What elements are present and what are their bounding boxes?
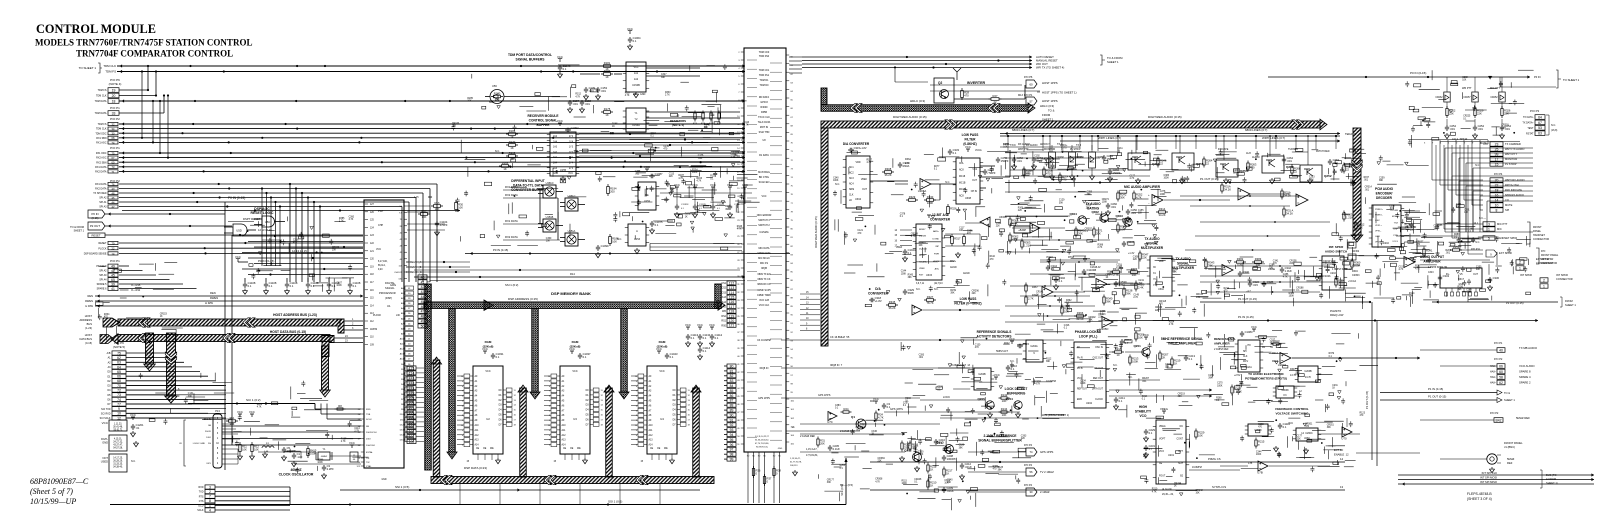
dense circuitry texture [1005,148,1364,193]
wire [945,233,980,235]
svg-text:INT SPI MISO: INT SPI MISO [1480,480,1497,484]
svg-text:R366: R366 [1077,311,1084,315]
wire ram addr stubs [457,375,464,377]
svg-text:BUFFER: BUFFER [537,123,551,127]
svg-text:L7B: L7B [1248,462,1253,465]
svg-text:CE: CE [476,448,480,450]
capacitor C1108 [328,278,330,282]
svg-text:HOST: HOST [85,333,93,337]
svg-text:39K: 39K [188,396,193,398]
svg-text:3: 3 [1488,222,1490,226]
svg-text:34.2K: 34.2K [1224,187,1231,191]
svg-text:TDM FS: TDM FS [98,123,107,126]
svg-text:22K: 22K [1086,207,1091,209]
svg-text:M13: M13 [1018,94,1023,97]
svg-text:DCLKR: DCLKR [1391,210,1399,212]
svg-text:33: 33 [112,111,116,115]
svg-text:0.1: 0.1 [311,284,315,288]
svg-text:A/B: A/B [107,352,111,355]
svg-text:R170: R170 [494,91,501,95]
svg-text:VCC: VCC [1288,422,1293,425]
svg-text:0.1: 0.1 [939,441,943,445]
capacitor C255 [996,157,1000,163]
svg-text:1A2: 1A2 [553,151,558,154]
svg-text:DQ/CLK: DQ/CLK [919,249,928,251]
svg-text:22K: 22K [1138,212,1143,214]
svg-text:NC8: NC8 [959,170,964,172]
capacitor C1049 [558,59,562,62]
svg-text:INDCATE: INDCATE [1218,148,1229,151]
svg-text:39K: 39K [1458,289,1463,291]
resistor R31 [817,439,819,445]
svg-text:RX2 SBN: RX2 SBN [96,161,107,164]
svg-text:108,113: 108,113 [790,465,798,467]
connector column right of memory bank lower [727,364,736,368]
svg-text:R132: R132 [1001,393,1008,397]
svg-text:VREF: VREF [919,268,925,270]
svg-text:10K: 10K [242,447,247,451]
transistor Q304 [1078,216,1086,224]
wire stubs right of U8 upper [789,56,802,58]
dense circuitry texture [1208,256,1401,309]
svg-text:VCC: VCC [237,410,243,414]
ic U216 switch [1322,256,1344,290]
ic U203C [1276,386,1294,398]
svg-text:Q205: Q205 [977,397,985,401]
svg-text:RXD: RXD [366,409,371,411]
capacitor C329 [903,289,907,295]
svg-text:P1 OUT (0:15): P1 OUT (0:15) [1200,177,1219,181]
svg-text:TRN7704F COMPARATOR CONTROL: TRN7704F COMPARATOR CONTROL [76,49,233,59]
connector P/O P4 pentagons [1026,448,1037,456]
svg-text:CK: CK [179,443,183,445]
svg-text:13: 13 [1340,485,1344,489]
capacitor C330 C331 [1438,275,1442,281]
svg-text:2Y3: 2Y3 [569,168,574,170]
svg-text:N.C.: N.C. [945,181,950,184]
connector pin TDM CLK 20 [96,93,119,98]
svg-text:66: 66 [117,375,121,379]
svg-text:P/O P1: P/O P1 [110,259,120,263]
resistor R132 R134 [1001,397,1007,399]
svg-text:DSP ADDRESS (0:15): DSP ADDRESS (0:15) [508,297,538,301]
bus right vertical checker [715,284,722,309]
svg-text:39K: 39K [1059,202,1064,204]
svg-text:P/O P2: P/O P2 [1490,411,1499,415]
svg-text:24,27,32,: 24,27,32, [113,442,123,444]
capacitor C1092 [558,123,562,126]
bus host data drop [322,346,329,390]
opamp U311 [1296,194,1308,206]
svg-text:2.1MHZ REFERENCE: 2.1MHZ REFERENCE [984,434,1018,438]
wire [119,89,148,91]
wire [119,183,437,185]
svg-text:.001: .001 [1034,158,1039,160]
svg-text:RESET: RESET [99,242,108,245]
connector P/O P6 pentagon [1026,80,1037,88]
svg-text:TIM: TIM [373,328,377,331]
svg-text:.001: .001 [1446,253,1451,255]
svg-text:U151C: U151C [568,195,576,198]
svg-text:SPARE 4: SPARE 4 [1519,375,1531,379]
svg-text:0.1: 0.1 [1189,357,1193,361]
svg-text:+1.8V: +1.8V [875,299,882,303]
svg-text:SSI 1 (0:5): SSI 1 (0:5) [395,485,409,489]
svg-text:0.1: 0.1 [670,355,674,359]
svg-text:2.7K: 2.7K [354,431,359,433]
dense circuitry texture [451,64,746,250]
resistor R9 box [350,452,358,462]
svg-text:67: 67 [1538,121,1542,125]
svg-text:6809 TX CK: 6809 TX CK [758,278,771,281]
svg-text:86: 86 [730,394,734,398]
transistor Q201 [1142,348,1150,356]
wire [119,128,745,130]
connector pin SPI A1 44 [99,200,118,204]
svg-text:10K: 10K [422,215,427,219]
svg-text:34.2K: 34.2K [1286,211,1293,215]
svg-text:VCLX: VCLX [1392,241,1398,243]
svg-text:88: 88 [730,404,734,408]
svg-text:3: 3 [209,485,211,489]
dense circuitry texture [623,171,760,226]
svg-text:10K: 10K [435,207,440,211]
svg-text:WR PTT: WR PTT [1462,87,1472,90]
svg-text:111: 111 [409,386,414,390]
wire [126,361,184,363]
connector pin RX2 DATA 40 [95,187,118,191]
svg-text:1K: 1K [1061,150,1064,152]
opamp mic amp [1152,195,1163,206]
svg-text:(22,7)13: (22,7)13 [934,283,943,285]
svg-text:A14: A14 [722,301,727,304]
dense circuitry texture [819,405,1018,507]
resistor R12 [239,445,241,452]
svg-text:119: 119 [729,314,735,318]
svg-text:CLOCK: CLOCK [1095,399,1103,401]
wire [126,375,208,377]
svg-text:OUT: OUT [972,180,977,182]
svg-text:R314: R314 [1159,207,1166,211]
svg-text:39K: 39K [1088,320,1093,322]
svg-text:4.7K: 4.7K [1283,276,1288,278]
svg-text:TX SPI RED: TX SPI RED [93,192,107,195]
svg-text:TDM ODC: TDM ODC [95,132,106,135]
connector pin SCI RXD 10 [101,411,126,416]
svg-text:1K: 1K [510,146,513,150]
svg-text:GND: GND [102,441,108,445]
svg-text:TDM FS: TDM FS [105,70,116,74]
svg-text:HIGH: HIGH [1139,405,1148,409]
svg-text:40MHZ: 40MHZ [321,456,328,458]
svg-text:FLEPS-48748-B: FLEPS-48748-B [1467,492,1492,496]
svg-text:P1 OUT (0-15): P1 OUT (0-15) [1365,391,1369,409]
svg-text:SPI A2: SPI A2 [99,197,107,200]
svg-text:R308: R308 [885,167,892,171]
wire SYNTH CS [870,489,1345,491]
svg-text:97: 97 [730,448,734,452]
svg-text:84: 84 [730,384,734,388]
svg-text:RX2 DATA: RX2 DATA [505,193,518,197]
svg-text:TALK DATA: TALK DATA [758,121,771,124]
wire WFI OUT [802,63,1032,65]
svg-text:22K: 22K [996,225,1001,227]
svg-text:HOST 1PPS: HOST 1PPS [1042,99,1058,103]
dense circuitry texture [1007,188,1170,254]
wire [1318,433,1360,435]
svg-text:P0 IN: P0 IN [92,212,99,216]
svg-text:ARN+: ARN+ [933,230,940,233]
dense circuitry texture [1401,229,1474,307]
capacitor C1106 [286,278,288,282]
svg-text:VOPT: VOPT [1159,438,1166,440]
connector pin WRTI PTT [1490,152,1503,157]
wire AUTO RESET [802,56,1032,58]
nc bracket [1546,115,1549,135]
svg-text:100K: 100K [1132,359,1138,363]
svg-text:VCC: VCC [1009,337,1015,341]
svg-text:OE: OE [483,448,487,450]
svg-text:40: 40 [1499,348,1503,352]
ic U315 [916,224,942,280]
svg-text:23: 23 [1495,142,1499,146]
connector P/O P1 pentagon [1026,97,1037,105]
vcc C215 [1010,341,1014,344]
svg-text:GPS 1PPS: GPS 1PPS [818,394,831,397]
svg-text:N.C.: N.C. [495,149,500,153]
svg-text:CHP: CHP [378,224,383,227]
svg-text:A12: A12 [649,434,654,437]
svg-text:CLK: CLK [1243,356,1248,358]
svg-text:PLOCK: PLOCK [98,247,107,250]
svg-text:DS: DS [208,443,212,445]
svg-text:4.7K: 4.7K [575,96,580,98]
svg-text:U211: U211 [1246,366,1252,369]
svg-text:RESET: RESET [92,234,101,238]
bus left arrow host address [103,318,119,327]
svg-text:REF OUT: REF OUT [1077,389,1088,391]
svg-text:77: 77 [117,402,121,406]
svg-text:R2K INDCATE: R2K INDCATE [1505,188,1522,192]
svg-text:TDM FS1: TDM FS1 [759,74,770,77]
svg-text:22K: 22K [1297,438,1302,440]
wire host addr pins [344,320,363,322]
ic U203B box [1298,366,1318,382]
svg-text:34,38-40,: 34,38-40, [113,467,123,469]
svg-text:1K: 1K [612,126,615,128]
svg-text:0.1UF: 0.1UF [833,447,841,451]
svg-text:DSPT RESET: DSPT RESET [243,217,261,221]
svg-text:D/A CONVERTER: D/A CONVERTER [843,142,870,146]
wire REF OUT [1109,379,1160,381]
svg-text:4.7K: 4.7K [1035,384,1040,386]
capacitor filter [1445,125,1449,131]
svg-text:2: 2 [209,490,211,494]
svg-text:.001: .001 [1142,381,1147,383]
svg-text:LOGIC GND: LOGIC GND [193,443,206,445]
svg-text:R327: R327 [927,295,934,299]
diode CR257 [1474,77,1476,92]
svg-text:1K: 1K [704,127,707,129]
ic U204B [974,368,991,390]
svg-text:TDM CK0: TDM CK0 [759,51,770,54]
vcc U315 [927,215,931,218]
capacitor C1104 [435,221,439,227]
svg-text:PWT: PWT [378,210,384,213]
svg-text:117: 117 [729,305,735,309]
svg-text:C1348 AV: C1348 AV [1090,266,1101,269]
opamp U306B [980,217,990,227]
wire vertical P1 pair [1371,302,1373,460]
connector pin D4 72 [107,388,126,393]
svg-text:PANEL: PANEL [1533,230,1542,233]
svg-text:CRMF TDRK: CRMF TDRK [757,294,771,297]
connector pin TX DATA- 64 [1523,115,1545,120]
svg-text:VCO 128: VCO 128 [759,299,770,302]
svg-text:STABILITY: STABILITY [1135,410,1152,414]
svg-text:39K: 39K [725,209,730,211]
svg-text:4.7K: 4.7K [1152,491,1157,493]
svg-text:PWRO+: PWRO+ [1375,209,1384,211]
svg-text:.001: .001 [1017,159,1023,163]
svg-text:CK 16.8MHZ 55: CK 16.8MHZ 55 [830,335,850,339]
crystal Y1 [318,452,330,460]
svg-text:LOCK: LOCK [943,395,950,399]
wire P0 IN hex to bus [105,213,225,215]
svg-text:39K: 39K [950,292,955,294]
svg-text:SPI A1: SPI A1 [99,201,107,204]
wire [119,242,363,244]
connector pin SPI A2 46 [99,196,118,200]
wire rail y196 [1005,191,1108,193]
svg-text:P2 OUT: P2 OUT [90,224,100,228]
svg-text:O—R15: O—R15 [131,283,141,287]
capacitor C1103b [1122,241,1126,247]
svg-text:22: 22 [1346,167,1349,171]
svg-text:Q256: Q256 [1152,162,1160,166]
svg-text:10K: 10K [1269,267,1274,269]
caps row mid [1012,157,1016,163]
svg-text:2.7K: 2.7K [1028,297,1034,301]
wire [1292,357,1420,359]
svg-text:CONTROL SIGNAL: CONTROL SIGNAL [529,119,558,123]
diode CR262 [1446,77,1448,92]
connector pin PTT RED 49 [96,264,118,268]
svg-text:TX DATA+: TX DATA+ [1522,122,1534,125]
svg-text:1,15,34,47,: 1,15,34,47, [790,458,801,460]
svg-text:RX1 ODC: RX1 ODC [96,152,107,155]
wire [95,305,363,307]
resistor R248 R249 [1075,229,1077,235]
svg-text:DECODER: DECODER [1376,196,1393,200]
svg-text:FROM: FROM [1042,113,1051,117]
svg-text:SPARE 2: SPARE 2 [1519,381,1531,385]
svg-text:TX/N: TX/N [1010,144,1016,147]
svg-text:NC1: NC1 [849,167,854,169]
svg-text:99: 99 [730,458,734,462]
svg-text:DSCK/OSI: DSCK/OSI [366,432,377,434]
svg-text:P13: P13 [215,409,220,413]
capacitor filter [1500,125,1504,131]
svg-text:2Y4: 2Y4 [569,163,574,165]
svg-text:VCC: VCC [572,370,577,373]
diode CR256 [1089,152,1096,168]
svg-text:10K: 10K [1462,80,1467,82]
caps row C1131 etc [675,204,679,210]
resistor R17 [421,213,428,216]
wire analog band rails [1005,151,1120,153]
svg-text:6809 TX EN: 6809 TX EN [758,273,771,276]
svg-text:Phi R: Phi R [1077,357,1083,359]
svg-text:39K: 39K [1138,283,1143,285]
svg-text:1A1: 1A1 [553,156,558,159]
svg-text:SCI 1 (0:2): SCI 1 (0:2) [246,398,261,402]
svg-text:R163: R163 [509,151,516,155]
wire fan 2 [1435,145,1437,224]
svg-text:SPKR DATA: SPKR DATA [757,252,771,255]
svg-text:U310: U310 [1158,288,1164,291]
wire INT SPI MISO [1398,483,1594,485]
connector pin TXD 2 [199,490,215,495]
wire [126,371,200,373]
svg-text:12 13 14 15: 12 13 14 15 [258,228,272,232]
wire [580,65,600,67]
wire stubs codec right [1404,210,1420,212]
connector pin TDM DATA 18 [95,99,119,104]
svg-text:75: 75 [117,351,121,355]
capacitor C1083 VCC [1240,331,1244,337]
svg-text:100K: 100K [1164,178,1170,180]
svg-text:96: 96 [730,443,734,447]
svg-text:CRMF SUPV: CRMF SUPV [757,289,771,292]
svg-text:VFX1-: VFX1- [1375,231,1381,233]
svg-text:SWITCH 2: SWITCH 2 [758,224,770,227]
svg-text:VCC: VCC [709,323,715,327]
svg-text:.001: .001 [635,173,640,175]
wire [119,137,745,139]
svg-text:25: 25 [1495,147,1499,151]
svg-text:39K: 39K [1026,173,1031,175]
svg-text:39K: 39K [1410,230,1415,232]
svg-text:0.1: 0.1 [332,284,336,288]
dense circuitry texture [661,112,751,231]
svg-text:39K: 39K [1132,273,1137,277]
svg-text:IRQ8 IN: IRQ8 IN [760,367,769,370]
svg-text:A13: A13 [562,439,567,442]
svg-text:WRTI LINES (0:7): WRTI LINES (0:7) [1262,136,1285,140]
svg-text:TO &: TO & [1504,391,1510,395]
dense circuitry texture [901,332,1066,426]
svg-text:120: 120 [729,319,735,323]
svg-text:CO: CO [1505,198,1509,202]
wire [579,133,740,135]
svg-text:SWITCH 3: SWITCH 3 [758,219,770,222]
svg-text:.01: .01 [1051,267,1055,271]
connector pin RX1 DATA 73 [95,165,118,169]
svg-text:64: 64 [117,365,121,369]
wire RESET out [105,234,363,236]
svg-text:U56: U56 [492,84,497,88]
svg-text:N.C.: N.C. [1475,164,1480,167]
comparator U151D [543,185,556,198]
gnd row pll [899,456,904,462]
svg-text:16.8MHZ: 16.8MHZ [1192,466,1202,469]
svg-text:.001: .001 [589,89,595,93]
svg-text:112: 112 [409,381,415,385]
capacitor C204 [1120,339,1124,345]
svg-text:DGTL: DGTL [101,437,108,441]
capacitor C1099 [596,245,600,251]
